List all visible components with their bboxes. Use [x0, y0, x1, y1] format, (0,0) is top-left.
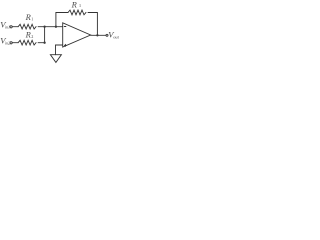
svg-text:in1: in1: [5, 25, 10, 30]
svg-text:R: R: [71, 0, 78, 9]
wire: [12, 42, 18, 44]
junction dot A: [43, 26, 45, 28]
node Vin2 terminal: [10, 42, 12, 44]
resistor R1: [18, 24, 36, 29]
svg-text:1: 1: [79, 3, 82, 8]
resistor Rf: [68, 10, 86, 15]
ground: [50, 55, 61, 63]
wire: [38, 26, 63, 28]
op-amp minus sign: [64, 26, 66, 28]
wire noninverting input: [56, 45, 63, 55]
wire feedback tap: [56, 13, 68, 27]
junction dot out: [96, 34, 98, 36]
svg-text:2: 2: [31, 34, 33, 39]
op-amp U1: [63, 23, 91, 47]
wire: [88, 13, 97, 36]
junction dot row2 corner: [43, 42, 45, 44]
junction dot B: [55, 26, 57, 28]
resistor R2: [18, 40, 36, 45]
svg-text:1: 1: [31, 17, 33, 22]
wire: [38, 27, 45, 43]
wire: [12, 26, 18, 28]
svg-text:out: out: [113, 34, 119, 39]
svg-text:in2: in2: [5, 40, 10, 45]
op-amp plus sign: [64, 44, 66, 46]
node Vin1 terminal: [10, 26, 12, 28]
node Vout terminal: [106, 34, 108, 36]
wire output: [91, 34, 106, 36]
